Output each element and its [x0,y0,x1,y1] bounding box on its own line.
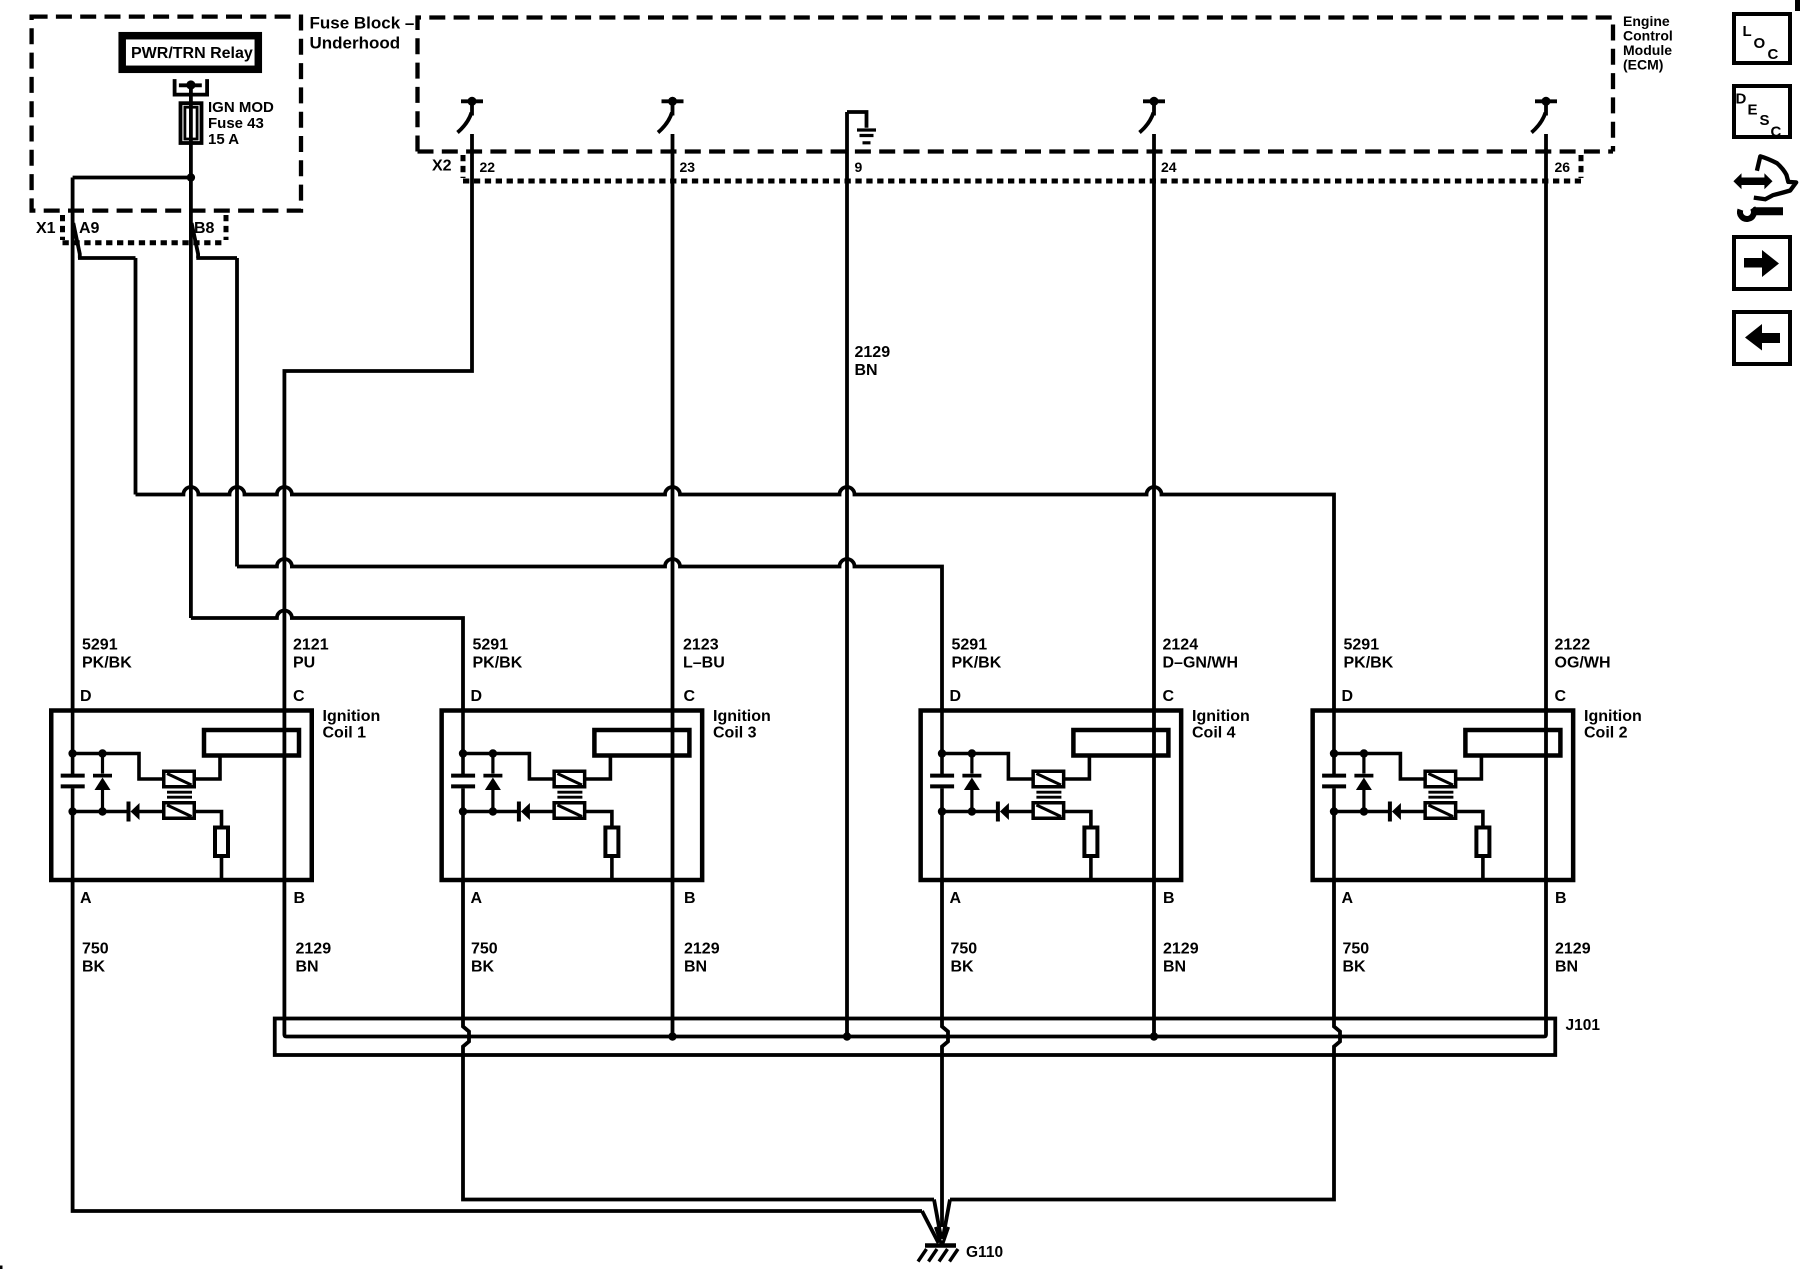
svg-text:Ignition: Ignition [1192,708,1250,725]
svg-text:Coil 4: Coil 4 [1192,725,1236,742]
wire junction to A9 drop [73,176,191,180]
svg-text:B8: B8 [194,220,215,237]
svg-text:BK: BK [82,959,106,976]
diagonal into ground node [922,1211,939,1243]
svg-text:5291: 5291 [952,637,988,654]
relay contact terminal [175,79,208,95]
svg-text:BN: BN [296,959,319,976]
corner mark bottom left [0,1266,3,1270]
svg-text:B: B [1555,890,1567,907]
svg-text:2129: 2129 [855,344,891,361]
svg-text:L–BU: L–BU [683,655,725,672]
svg-text:2121: 2121 [293,637,329,654]
ignition coil 1 [51,708,312,880]
wire branch down to rail 1 [134,258,138,495]
svg-text:Ignition: Ignition [323,708,381,725]
svg-text:24: 24 [1161,159,1177,175]
svg-text:A: A [950,890,962,907]
ignition coil 2 [1313,708,1574,880]
ECM driver pin 23 [658,97,684,133]
svg-text:J101: J101 [1566,1017,1601,1034]
svg-text:750: 750 [82,941,109,958]
wire A9 branch horizontal [78,256,136,260]
svg-text:C: C [1771,124,1782,141]
svg-text:O: O [1754,35,1766,52]
wire B8 branch horizontal [196,256,237,260]
ECM driver pin 26 [1532,97,1558,133]
ECM dashed box [418,18,1614,152]
svg-text:750: 750 [951,941,978,958]
connector X1 left edge [60,215,65,240]
icon LOC box [1734,14,1790,63]
svg-text:PK/BK: PK/BK [952,655,1002,672]
svg-text:PWR/TRN Relay: PWR/TRN Relay [131,45,253,62]
icon diagnostic hook arrow [1754,156,1796,199]
wire 750 BK coil 1 pin A to ground [73,879,922,1211]
svg-text:BK: BK [951,959,975,976]
svg-text:BN: BN [684,959,707,976]
svg-text:750: 750 [471,941,498,958]
svg-text:9: 9 [855,159,863,175]
svg-text:22: 22 [480,159,496,175]
svg-text:Underhood: Underhood [310,34,401,53]
svg-text:Fuse 43: Fuse 43 [208,115,264,132]
wire A9 branch jog [73,223,80,258]
svg-text:2129: 2129 [684,941,720,958]
svg-text:2129: 2129 [1163,941,1199,958]
svg-text:G110: G110 [966,1244,1003,1261]
svg-text:2124: 2124 [1163,637,1199,654]
rail 1: 5291 feed to coil 2 D [136,487,1335,710]
wire 2129 BN coil 3 pin B [671,879,675,1037]
junction pin 9 wire on bus [843,1032,851,1040]
ground arrowhead [936,1227,949,1246]
svg-text:Coil 2: Coil 2 [1584,725,1628,742]
svg-text:BN: BN [855,362,878,379]
svg-text:C: C [1768,46,1779,63]
svg-text:Fuse Block –: Fuse Block – [310,14,415,33]
wire 2129 BN: pin 9 to J101 [845,112,849,1037]
svg-text:5291: 5291 [473,637,509,654]
svg-text:PU: PU [293,655,315,672]
ECM internal ground pin 9 [847,112,876,143]
wire relay to fuse to junction [189,89,193,178]
svg-text:B: B [684,890,696,907]
svg-text:X2: X2 [432,158,452,175]
svg-text:PK/BK: PK/BK [82,655,132,672]
wire A9 vertical to coil 1 D [71,178,75,711]
ignition coil 4 [921,708,1182,880]
svg-text:2123: 2123 [683,637,719,654]
wire 2129 BN coil 4 pin B [1152,879,1156,1037]
connector X1 right edge [224,215,229,240]
rail 3: 5291 feed to coil 3 D [191,611,463,711]
ignition coil 3 [442,708,703,880]
corner mark top right [1795,0,1800,11]
svg-text:C: C [1555,688,1567,705]
icon DESC box [1734,86,1790,137]
svg-text:(ECM): (ECM) [1623,56,1663,72]
wire 750 BK coil 4 pin A (jogs over J101 bus) [942,879,948,1227]
svg-text:D: D [80,688,92,705]
svg-text:A: A [80,890,92,907]
svg-text:D–GN/WH: D–GN/WH [1163,655,1239,672]
svg-text:2129: 2129 [1555,941,1591,958]
svg-text:A: A [471,890,483,907]
svg-text:D: D [1342,688,1354,705]
svg-text:BK: BK [1343,959,1367,976]
svg-text:Coil 3: Coil 3 [713,725,757,742]
svg-text:D: D [950,688,962,705]
svg-text:IGN MOD: IGN MOD [208,99,274,116]
svg-text:PK/BK: PK/BK [473,655,523,672]
fuse F43 inner [185,107,197,139]
wire branch down to rail 2 [235,258,239,567]
relay pin dot [186,80,195,89]
connector X1 bottom edge [63,240,227,245]
svg-text:750: 750 [1343,941,1370,958]
junction fuse output [187,173,195,181]
diagonal into ground node [943,1200,950,1240]
svg-text:C: C [293,688,305,705]
connector X2 bottom edge [463,179,1581,184]
svg-text:2122: 2122 [1555,637,1591,654]
svg-text:S: S [1760,112,1770,129]
svg-text:Ignition: Ignition [1584,708,1642,725]
icon diagnostic double arrow [1741,178,1766,186]
J101 bus wire: coil1 B to coil2 B [284,879,1546,1037]
icon diagnostic wrench [1740,208,1754,219]
junction coil 4 B on bus [1150,1032,1158,1040]
svg-text:5291: 5291 [82,637,118,654]
svg-text:D: D [471,688,483,705]
svg-text:2129: 2129 [296,941,332,958]
svg-text:A9: A9 [79,220,100,237]
icon forward arrow box [1734,237,1790,289]
wire 2123 L-BU: pin 23 to coil 3 C [671,134,675,880]
svg-text:C: C [684,688,696,705]
icon back arrow box [1734,312,1790,364]
splice pack J101 outline [275,1019,1556,1056]
ECM driver pin 24 [1140,97,1166,133]
svg-text:X1: X1 [36,220,56,237]
wire 2124 D-GN/WH: pin 24 to coil 4 C [1152,134,1156,880]
svg-text:L: L [1743,23,1752,40]
wire 750 BK coil 2 pin A (jogs over J101 bus) [950,879,1340,1200]
rail 2: 5291 feed to coil 4 D [237,559,942,710]
svg-text:D: D [1736,91,1747,108]
wire 2121 PU: pin 22 to coil 1 C [284,134,472,880]
svg-text:C: C [1163,688,1175,705]
wire 2122 OG/WH: pin 26 to coil 2 C [1544,134,1548,880]
svg-text:BK: BK [471,959,495,976]
wire B8 vertical to rail 3 [189,178,193,619]
connector X2 right edge [1579,155,1584,178]
svg-text:B: B [1163,890,1175,907]
connector X2 left edge [461,155,466,178]
svg-text:BN: BN [1163,959,1186,976]
junction coil 3 B on bus [668,1032,676,1040]
relay K: PWR/TRN Relay box [122,36,258,70]
svg-text:OG/WH: OG/WH [1555,655,1611,672]
wire 750 BK coil 3 pin A (jogs over J101 bus) [463,879,934,1200]
svg-text:A: A [1342,890,1354,907]
svg-text:E: E [1748,102,1758,119]
wire B8 branch jog [192,223,199,258]
diagonal into ground node [934,1200,941,1240]
svg-text:B: B [294,890,306,907]
svg-text:Coil 1: Coil 1 [323,725,367,742]
ground G110 symbol [925,1243,956,1248]
svg-text:15 A: 15 A [208,131,239,148]
fuse F43 IGN MOD outer [181,103,202,143]
svg-text:5291: 5291 [1344,637,1380,654]
ECM bottom dashed edge [418,149,1614,153]
svg-text:PK/BK: PK/BK [1344,655,1394,672]
svg-text:BN: BN [1555,959,1578,976]
ECM driver pin 22 [458,97,484,133]
svg-text:23: 23 [680,159,696,175]
svg-text:Ignition: Ignition [713,708,771,725]
svg-text:26: 26 [1555,159,1571,175]
fuse block underhood dashed box [32,17,301,211]
